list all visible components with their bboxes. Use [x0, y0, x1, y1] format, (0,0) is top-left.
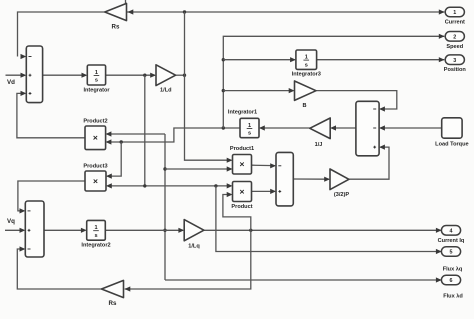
svg-text:Product: Product	[231, 204, 252, 210]
svg-text:Speed: Speed	[446, 44, 463, 50]
svg-text:1/J: 1/J	[315, 142, 323, 148]
svg-text:4: 4	[450, 229, 453, 235]
outport 4	[441, 226, 460, 236]
load torque source block	[442, 118, 462, 138]
label Integrator3	[292, 72, 321, 78]
label Current Iq	[438, 238, 465, 244]
svg-text:Flux λq: Flux λq	[443, 267, 463, 273]
svg-text:Product3: Product3	[83, 164, 107, 170]
wire lambda-q to Product1 in2	[165, 166, 233, 171]
wire lambda-d vertical	[144, 75, 146, 186]
svg-text:Integrator2: Integrator2	[81, 243, 110, 249]
wire Sum1 to Integrator	[43, 73, 88, 78]
wire Product to TorqueSum in2	[252, 189, 277, 194]
wire Product2 out to Sum1 in3	[17, 91, 85, 138]
svg-text:Flux λd: Flux λd	[443, 294, 463, 300]
svg-text:Integrator1: Integrator1	[228, 110, 257, 116]
wire lambda-d bus to Product3 in2 and Product in1	[106, 183, 233, 188]
svg-text:×: ×	[240, 186, 245, 196]
label B	[302, 103, 306, 109]
label Position	[444, 67, 467, 73]
wire gain B to Sum3 in1	[316, 91, 397, 112]
sum block TorqueSum	[276, 152, 293, 206]
integrator Integrator3	[296, 50, 317, 69]
outport 1	[445, 7, 464, 17]
sum block Sum2	[25, 201, 44, 257]
wire lambda-q vertical	[164, 134, 166, 280]
wire Load Torque to Sum3 in2	[379, 125, 442, 130]
wire 3/2P to Sum3 in3	[349, 145, 389, 180]
label Integrator	[83, 88, 110, 94]
wire omega vertical up to Out2 Speed	[223, 34, 444, 128]
svg-text:(3/2)P: (3/2)P	[334, 192, 350, 198]
wire TorqueSum to gain 3/2P	[293, 177, 330, 182]
svg-text:2: 2	[453, 35, 456, 41]
outport 5	[441, 247, 460, 257]
svg-text:Load Torque: Load Torque	[435, 142, 468, 148]
svg-text:Integrator3: Integrator3	[292, 72, 321, 78]
outport 2	[445, 32, 464, 42]
svg-text:5: 5	[450, 250, 453, 256]
wire Integrator2 to 1/Lq	[105, 228, 184, 233]
svg-text:1: 1	[305, 55, 308, 61]
junction lambda-d bus right	[214, 184, 217, 187]
junction lambda-d bus left	[143, 184, 146, 187]
junction omega to Integrator3	[222, 58, 225, 61]
node Vd input label	[7, 79, 15, 86]
label 1/Ld	[160, 88, 172, 94]
svg-text:B: B	[302, 103, 306, 109]
svg-text:1: 1	[248, 123, 251, 129]
wire Integrator to 1/Ld	[106, 73, 156, 78]
wire clipped stub above Rs1	[125, 0, 127, 4]
wire Vd input	[6, 73, 27, 78]
wire omega branch down to Product3 in1	[106, 142, 121, 179]
label Product	[231, 204, 252, 210]
svg-text:×: ×	[93, 176, 98, 186]
integrator U-Integrator	[87, 65, 105, 85]
svg-text:1: 1	[94, 225, 97, 231]
product Product3	[85, 171, 106, 191]
junction id top	[183, 10, 186, 13]
label Product3	[83, 164, 107, 170]
wire id vertical to Product1 in1	[185, 12, 233, 163]
gain 1/Ld	[156, 65, 176, 86]
wire 1/Ld output to id node	[176, 74, 185, 76]
junction iq node	[249, 229, 252, 232]
svg-text:Current: Current	[445, 20, 465, 26]
label Integrator2	[81, 243, 110, 249]
integrator Integrator1 (mirrored)	[240, 118, 259, 137]
label 1/Lq	[188, 244, 200, 250]
label Rs2	[109, 300, 117, 307]
svg-text:Rs: Rs	[112, 24, 120, 31]
outport 3	[445, 55, 464, 65]
svg-text:Integrator: Integrator	[83, 88, 110, 94]
svg-text:1: 1	[95, 70, 98, 76]
junction omega to gain B	[222, 89, 225, 92]
node Vq input label	[7, 218, 15, 225]
outport 6	[441, 275, 460, 285]
junction omega to Product3	[120, 140, 123, 143]
wire lambda-q to Product2 in1	[106, 131, 165, 136]
wire Sum3 to 1/J	[330, 125, 356, 130]
junction lambda-q on Integrator2 output	[163, 229, 166, 232]
wire iq jog to Product in2	[223, 192, 251, 230]
wire id to Rs1 input	[127, 9, 185, 14]
gain Rs2 (bottom, left-pointing)	[102, 280, 124, 297]
gain B (damping)	[295, 81, 317, 100]
wire omega to gain B	[223, 88, 294, 93]
svg-text:Vq: Vq	[7, 218, 15, 225]
wire Product3 out to Sum2 in1	[18, 181, 85, 214]
svg-text:Product2: Product2	[83, 119, 107, 125]
gain 1/J (left-pointing)	[310, 118, 330, 139]
svg-text:Product1: Product1	[230, 146, 254, 152]
gain 1/Lq	[184, 220, 204, 241]
product Product	[233, 182, 252, 202]
gain 3/2P	[330, 169, 349, 190]
wire omega to Integrator3	[223, 57, 296, 62]
wire Sum2 to Integrator2	[44, 228, 87, 233]
svg-text:1/Ld: 1/Ld	[160, 88, 172, 94]
svg-text:Current Iq: Current Iq	[438, 238, 465, 244]
label Integrator1	[228, 110, 257, 116]
label 1/J	[315, 142, 323, 148]
gain Rs1 (top, left-pointing)	[105, 3, 127, 20]
junction id node	[183, 74, 186, 77]
label Flux &#955;q	[443, 267, 463, 273]
wire lambda-q to Out6	[165, 277, 442, 282]
wire Integrator3 to Out3 Position	[317, 57, 445, 62]
svg-text:s: s	[95, 78, 98, 84]
wire iq down to Rs2	[125, 230, 251, 291]
wire Vq input	[5, 228, 25, 233]
wire Product1 to TorqueSum in1	[252, 163, 277, 168]
junction lambda-q to Product1 in2	[163, 167, 166, 170]
svg-text:1/Lq: 1/Lq	[188, 244, 200, 250]
product Product1	[233, 155, 252, 175]
junction omega-vertical	[222, 126, 225, 129]
svg-text:Position: Position	[444, 67, 467, 73]
svg-text:6: 6	[450, 278, 453, 284]
svg-text:Vd: Vd	[7, 79, 15, 86]
wire id top to Out1 Current	[185, 9, 445, 14]
svg-text:1: 1	[453, 10, 456, 16]
label Speed	[446, 44, 463, 50]
label Product2	[83, 119, 107, 125]
wire iq: 1/Lq output to Out4	[204, 228, 442, 233]
svg-text:Rs: Rs	[109, 300, 117, 307]
wire Integrator1 out omega	[106, 128, 240, 145]
product Product2	[85, 126, 106, 150]
label (3/2)P	[334, 192, 350, 198]
junction lambda-d	[143, 74, 146, 77]
svg-text:×: ×	[93, 133, 98, 143]
svg-text:s: s	[248, 131, 251, 137]
label Rs1	[112, 24, 120, 31]
svg-text:s: s	[305, 62, 308, 68]
wire Rs1 feedback: id to Sum1 in1	[18, 12, 105, 59]
svg-text:3: 3	[453, 58, 456, 64]
wire Rs2 feedback to Sum2 in3	[17, 246, 101, 289]
label Flux &#955;d	[443, 294, 463, 300]
sum block Sum1	[26, 46, 42, 103]
integrator Integrator2	[87, 220, 106, 240]
wire 1/J to Integrator1	[259, 125, 310, 130]
sum block Sum3 (mechanical)	[356, 101, 379, 156]
label Product1	[230, 146, 254, 152]
svg-text:s: s	[94, 233, 97, 239]
label Load Torque	[435, 142, 468, 148]
svg-text:×: ×	[240, 159, 245, 169]
label Current	[445, 20, 465, 26]
wire lambda-d to Out5	[216, 186, 442, 254]
